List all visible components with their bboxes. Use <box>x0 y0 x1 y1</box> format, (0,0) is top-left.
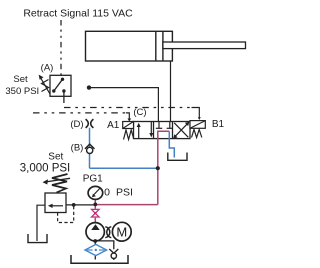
svg-text:3,000 PSI: 3,000 PSI <box>20 163 71 175</box>
svg-text:PSI: PSI <box>116 187 133 199</box>
svg-text:(A): (A) <box>41 63 54 74</box>
svg-text:(D): (D) <box>70 119 83 130</box>
svg-text:(C): (C) <box>133 107 146 118</box>
svg-text:0: 0 <box>104 187 110 199</box>
svg-text:(B): (B) <box>71 143 84 154</box>
svg-text:M: M <box>116 225 127 240</box>
svg-text:A1: A1 <box>107 120 120 131</box>
svg-text:Set: Set <box>48 152 63 163</box>
svg-text:350 PSI: 350 PSI <box>5 86 39 97</box>
svg-text:Retract Signal 115 VAC: Retract Signal 115 VAC <box>23 8 133 20</box>
svg-text:B1: B1 <box>212 119 225 130</box>
svg-text:Set: Set <box>13 74 28 85</box>
svg-text:PG1: PG1 <box>83 173 103 184</box>
